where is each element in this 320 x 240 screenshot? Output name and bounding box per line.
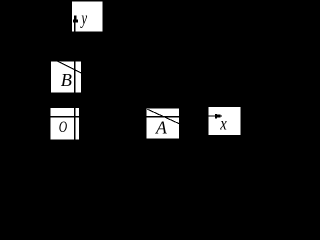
svg-text:y: y (80, 8, 87, 28)
x-axis arrowhead wings (215, 114, 217, 119)
svg-text:O: O (59, 119, 68, 136)
line AB segment in A box (147, 109, 179, 124)
label box B (51, 62, 81, 93)
y-axis segment in y box (74, 20, 76, 32)
svg-text:B: B (61, 70, 72, 90)
y-axis arrowhead base wings (73, 19, 78, 22)
x-axis segment in O box (50, 116, 78, 118)
line AB segment in B box (58, 61, 82, 73)
label box y (72, 2, 103, 32)
label box A (147, 108, 180, 138)
x-axis arrowhead tip (220, 115, 222, 116)
y-axis segment in B box (74, 62, 75, 93)
x-axis arrowhead mid (217, 115, 220, 118)
x-axis segment in A box (147, 116, 180, 118)
svg-text:A: A (155, 117, 168, 137)
svg-text:x: x (219, 113, 226, 133)
y-axis segment in O box (74, 108, 75, 139)
x-axis arrow line in x box (209, 115, 216, 116)
label box O (50, 108, 78, 139)
label box x (209, 107, 241, 135)
y-axis arrowhead bar (74, 16, 77, 20)
